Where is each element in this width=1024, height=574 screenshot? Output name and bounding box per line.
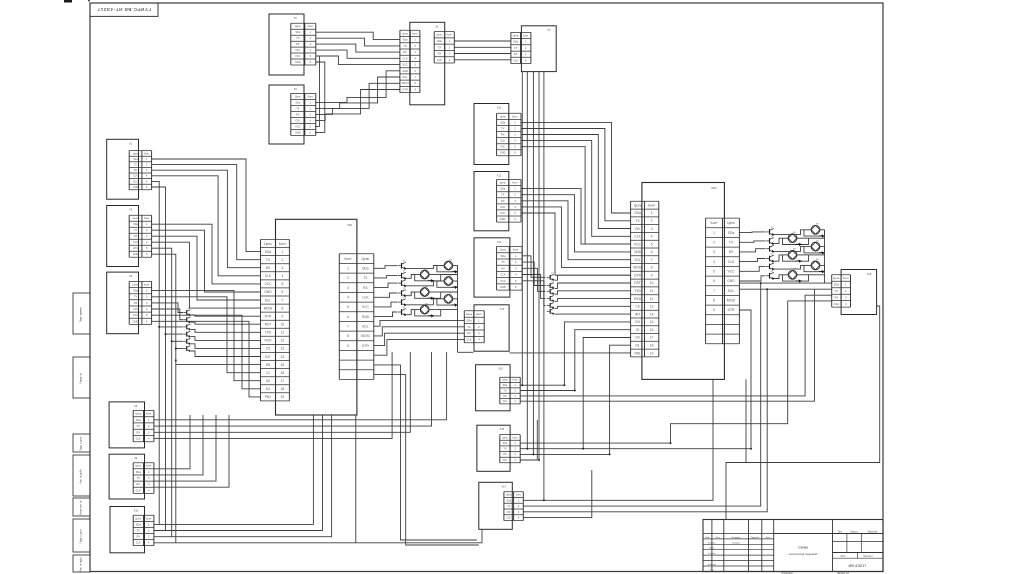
svg-text:Перв. примен.: Перв. примен.	[80, 306, 83, 322]
svg-text:IO: IO	[636, 328, 640, 332]
svg-text:SDa: SDa	[136, 470, 142, 474]
svg-text:Изм.: Изм.	[705, 537, 710, 539]
svg-text:17: 17	[650, 336, 654, 340]
svg-text:11: 11	[650, 289, 654, 293]
svg-text:Цепь: Цепь	[502, 436, 508, 439]
svg-text:Конт: Конт	[711, 221, 719, 225]
svg-text:Конт: Конт	[308, 25, 314, 28]
svg-text:Масса: Масса	[851, 531, 859, 533]
svg-text:SDa: SDa	[513, 40, 519, 44]
svg-text:RX: RX	[134, 170, 138, 172]
svg-text:3: 3	[347, 286, 349, 290]
svg-text:Подпись: Подпись	[751, 537, 759, 539]
svg-text:Т.контр.: Т.контр.	[708, 553, 716, 555]
svg-text:TX: TX	[438, 45, 442, 49]
svg-text:PB1: PB1	[265, 395, 271, 399]
svg-text:DTR: DTR	[265, 314, 272, 318]
svg-text:Цепь: Цепь	[727, 221, 735, 225]
svg-text:Цепь: Цепь	[295, 25, 302, 28]
svg-text:CLK: CLK	[500, 140, 505, 143]
svg-text:Подп. и дата: Подп. и дата	[80, 436, 83, 451]
svg-text:M1: M1	[793, 232, 796, 234]
svg-text:3: 3	[651, 227, 653, 231]
svg-text:CLK: CLK	[133, 176, 138, 178]
svg-text:ГУИРС.ВВ ИТ-4Э217: ГУИРС.ВВ ИТ-4Э217	[97, 6, 151, 12]
svg-text:12: 12	[650, 297, 654, 301]
svg-text:Конт: Конт	[447, 33, 453, 37]
svg-text:7: 7	[713, 289, 715, 293]
svg-text:EN: EN	[266, 363, 271, 367]
svg-text:4: 4	[651, 235, 653, 239]
svg-text:SDa: SDa	[295, 101, 300, 104]
svg-text:RX: RX	[134, 301, 138, 305]
svg-text:X13: X13	[497, 241, 502, 244]
svg-text:SDa: SDa	[136, 523, 142, 526]
svg-text:SDa: SDa	[133, 159, 138, 161]
svg-text:X15: X15	[498, 368, 503, 371]
svg-text:D1: D1	[266, 387, 270, 391]
svg-text:CLK: CLK	[500, 205, 505, 209]
svg-text:17: 17	[281, 379, 285, 383]
svg-text:Конт: Конт	[146, 464, 152, 468]
svg-text:GND: GND	[295, 131, 301, 134]
svg-text:X16: X16	[500, 428, 505, 431]
svg-text:Цепь: Цепь	[506, 494, 512, 497]
svg-text:CLK: CLK	[136, 488, 141, 492]
svg-text:DTR: DTR	[728, 308, 735, 312]
svg-text:SDa: SDa	[503, 385, 508, 387]
svg-text:Цепь: Цепь	[132, 282, 139, 286]
svg-text:RX: RX	[729, 250, 734, 254]
svg-text:D0: D0	[266, 379, 270, 383]
svg-text:8: 8	[651, 266, 653, 270]
svg-text:CLK: CLK	[634, 235, 641, 239]
svg-text:2: 2	[713, 241, 715, 245]
svg-text:12: 12	[281, 339, 285, 343]
svg-text:5: 5	[651, 242, 653, 246]
svg-text:Цепь: Цепь	[466, 312, 473, 316]
svg-text:Конт: Конт	[516, 494, 522, 497]
svg-text:CLK: CLK	[136, 437, 141, 441]
svg-text:X17: X17	[502, 485, 507, 488]
svg-text:GND: GND	[133, 187, 139, 189]
svg-text:SDa: SDa	[500, 254, 506, 258]
svg-text:электрическая соединений: электрическая соединений	[789, 553, 819, 556]
svg-text:Подп. и дата: Подп. и дата	[80, 529, 83, 544]
svg-text:Конт: Конт	[513, 248, 519, 252]
svg-text:RX: RX	[296, 43, 300, 46]
svg-text:RX: RX	[501, 266, 505, 270]
svg-text:TX: TX	[296, 37, 300, 40]
svg-text:RST: RST	[634, 281, 641, 285]
svg-text:RX: RX	[835, 295, 839, 299]
svg-text:VCC: VCC	[634, 242, 642, 246]
svg-text:Конт: Конт	[146, 412, 152, 416]
svg-text:Конт: Конт	[412, 31, 418, 35]
svg-text:SDa: SDa	[403, 38, 409, 42]
svg-text:18: 18	[650, 344, 654, 348]
svg-text:GND: GND	[295, 61, 301, 64]
svg-text:EN: EN	[635, 320, 640, 324]
svg-text:SDa: SDa	[500, 121, 506, 124]
svg-text:CLK: CLK	[265, 274, 272, 278]
svg-text:SDa: SDa	[437, 39, 443, 43]
svg-text:SDa: SDa	[133, 223, 138, 226]
svg-text:M1: M1	[816, 259, 819, 261]
svg-text:TX: TX	[501, 260, 505, 264]
svg-text:14: 14	[281, 355, 285, 359]
svg-text:TX: TX	[134, 165, 137, 167]
svg-text:SCL: SCL	[362, 325, 369, 329]
svg-text:CLK: CLK	[513, 58, 518, 62]
svg-text:D1: D1	[636, 344, 640, 348]
svg-text:6: 6	[281, 290, 283, 294]
svg-text:Конт: Конт	[523, 34, 529, 38]
svg-text:CLK: CLK	[295, 49, 300, 52]
svg-text:TX: TX	[835, 289, 839, 293]
svg-text:Конт: Конт	[308, 95, 314, 98]
svg-text:CLK: CLK	[503, 459, 508, 462]
svg-text:16: 16	[281, 371, 285, 375]
svg-text:SCL: SCL	[634, 258, 641, 262]
svg-text:8: 8	[713, 299, 715, 303]
svg-text:TX: TX	[503, 390, 506, 392]
svg-text:RX: RX	[467, 331, 471, 335]
svg-text:X14: X14	[500, 308, 505, 311]
svg-text:M1: M1	[816, 240, 819, 242]
svg-text:1: 1	[713, 231, 715, 235]
svg-text:SDa: SDa	[265, 250, 272, 254]
svg-text:CLK: CLK	[466, 338, 471, 342]
svg-text:RX: RX	[501, 134, 505, 137]
svg-text:7: 7	[347, 325, 349, 329]
svg-text:GND: GND	[500, 285, 506, 289]
svg-text:TX: TX	[501, 193, 505, 197]
svg-text:INT: INT	[265, 355, 270, 359]
svg-text:ИВ 4Э217: ИВ 4Э217	[849, 563, 867, 568]
svg-text:M1: M1	[449, 259, 452, 261]
svg-text:11: 11	[281, 331, 285, 335]
svg-text:SDa: SDa	[133, 289, 139, 293]
svg-text:RX: RX	[507, 511, 511, 514]
svg-text:Цепь: Цепь	[502, 380, 508, 382]
svg-text:RX: RX	[403, 50, 407, 54]
svg-text:Разраб.: Разраб.	[708, 542, 716, 544]
svg-text:7: 7	[651, 258, 653, 262]
svg-text:RX: RX	[136, 430, 140, 434]
svg-text:X12: X12	[497, 175, 502, 178]
svg-text:CLK: CLK	[503, 401, 508, 403]
svg-text:RXD: RXD	[634, 297, 642, 301]
svg-text:5: 5	[347, 305, 349, 309]
svg-text:8: 8	[281, 306, 283, 310]
svg-text:M1: M1	[793, 249, 796, 251]
svg-text:DTR: DTR	[634, 274, 641, 278]
svg-text:Схема: Схема	[798, 545, 808, 549]
svg-text:13: 13	[650, 305, 654, 309]
svg-text:CLK: CLK	[437, 58, 442, 62]
svg-text:1: 1	[347, 267, 349, 271]
svg-text:SDa: SDa	[362, 267, 369, 271]
svg-text:INT: INT	[635, 312, 640, 316]
svg-text:SDa: SDa	[834, 283, 840, 287]
svg-text:9: 9	[281, 314, 283, 318]
svg-text:Лит.: Лит.	[838, 531, 843, 533]
svg-text:DTR: DTR	[362, 344, 369, 348]
svg-text:M1: M1	[449, 275, 452, 277]
svg-text:SDa: SDa	[466, 318, 472, 322]
svg-text:2: 2	[281, 258, 283, 262]
svg-text:TX: TX	[137, 529, 141, 532]
svg-text:TXD: TXD	[265, 331, 272, 335]
svg-text:Цепь: Цепь	[513, 34, 520, 38]
svg-text:SCL: SCL	[728, 289, 735, 293]
svg-text:15: 15	[650, 320, 654, 324]
svg-text:M1: M1	[816, 224, 819, 226]
svg-text:Конт: Конт	[146, 517, 152, 520]
svg-text:18: 18	[281, 387, 285, 391]
svg-text:RX: RX	[503, 396, 507, 398]
svg-text:TX: TX	[137, 424, 141, 428]
svg-text:10: 10	[281, 323, 285, 327]
svg-text:1: 1	[281, 250, 283, 254]
svg-text:15: 15	[281, 363, 285, 367]
svg-text:X10: X10	[134, 510, 139, 513]
svg-text:Конт: Конт	[476, 312, 483, 316]
svg-text:VCC: VCC	[500, 146, 506, 149]
svg-text:GND: GND	[500, 217, 506, 221]
svg-text:DTR: DTR	[402, 88, 407, 92]
svg-text:CLK: CLK	[506, 517, 511, 520]
svg-text:SDa: SDa	[728, 231, 735, 235]
svg-text:Конт: Конт	[512, 115, 518, 118]
svg-text:MOSI: MOSI	[402, 81, 409, 85]
svg-text:RX: RX	[438, 52, 442, 56]
svg-text:TX: TX	[134, 229, 138, 232]
svg-text:9: 9	[651, 274, 653, 278]
svg-text:GND: GND	[362, 315, 370, 319]
svg-text:CLK: CLK	[500, 273, 505, 277]
svg-text:DD2: DD2	[711, 187, 717, 190]
svg-text:TX: TX	[501, 127, 505, 130]
svg-text:VCC: VCC	[728, 270, 736, 274]
svg-text:M1: M1	[449, 293, 452, 295]
svg-text:19: 19	[650, 351, 654, 355]
svg-text:9: 9	[713, 308, 715, 312]
svg-text:RST: RST	[265, 323, 272, 327]
svg-text:VCC: VCC	[500, 211, 506, 215]
svg-text:Цепь: Цепь	[133, 153, 139, 155]
svg-text:GND: GND	[727, 279, 735, 283]
svg-text:13: 13	[281, 347, 285, 351]
svg-text:VCC: VCC	[133, 313, 139, 317]
svg-text:Справ. №: Справ. №	[80, 372, 83, 383]
svg-text:Ушаков: Ушаков	[732, 542, 740, 544]
svg-text:Утв.: Утв.	[710, 569, 715, 571]
svg-text:CLK: CLK	[362, 296, 369, 300]
svg-text:CS: CS	[266, 347, 271, 351]
svg-text:RX: RX	[266, 266, 271, 270]
svg-text:MOSI: MOSI	[633, 266, 641, 270]
svg-text:Цепь: Цепь	[833, 276, 840, 280]
svg-text:Конт: Конт	[144, 217, 150, 220]
svg-text:SCL: SCL	[265, 298, 272, 302]
svg-text:Конт: Конт	[512, 181, 518, 185]
svg-text:6: 6	[713, 279, 715, 283]
svg-text:CLK: CLK	[834, 302, 839, 306]
svg-text:VCC: VCC	[295, 55, 300, 58]
svg-text:TXD: TXD	[634, 289, 641, 293]
svg-text:Инв. № подл.: Инв. № подл.	[80, 557, 83, 572]
svg-text:19: 19	[281, 395, 285, 399]
svg-text:Масштаб: Масштаб	[868, 531, 879, 533]
svg-text:5: 5	[713, 270, 715, 274]
svg-text:DD1: DD1	[347, 224, 353, 227]
svg-text:Н.контр.: Н.контр.	[708, 564, 717, 566]
svg-text:Конт: Конт	[144, 282, 150, 286]
svg-text:Цепь: Цепь	[500, 248, 507, 252]
svg-text:TX: TX	[467, 325, 471, 329]
svg-text:GND: GND	[500, 152, 506, 155]
svg-text:8: 8	[347, 334, 349, 338]
svg-text:CLK: CLK	[133, 241, 138, 244]
svg-text:VCC: VCC	[265, 282, 273, 286]
svg-text:MOSI: MOSI	[361, 334, 370, 338]
svg-text:Пров.: Пров.	[709, 548, 715, 550]
svg-text:TX: TX	[503, 448, 506, 451]
svg-text:RX: RX	[134, 235, 138, 238]
svg-text:SDa: SDa	[500, 187, 506, 191]
svg-text:Цепь: Цепь	[135, 464, 142, 468]
svg-text:RX: RX	[501, 199, 505, 203]
svg-text:Конт: Конт	[345, 257, 353, 261]
svg-text:Лист: Лист	[716, 537, 721, 539]
svg-text:CLK: CLK	[295, 119, 300, 122]
svg-text:5: 5	[281, 282, 283, 286]
svg-text:TX: TX	[137, 476, 141, 480]
svg-text:PB1: PB1	[635, 351, 641, 355]
svg-text:2: 2	[347, 276, 349, 280]
svg-text:TX: TX	[296, 107, 300, 110]
svg-text:TX: TX	[134, 295, 138, 299]
svg-text:GND: GND	[133, 253, 139, 256]
svg-text:CLK: CLK	[728, 260, 735, 264]
svg-text:RX: RX	[363, 286, 368, 290]
svg-text:Конт: Конт	[279, 242, 287, 246]
svg-text:VCC: VCC	[362, 305, 370, 309]
svg-text:Цепь: Цепь	[500, 115, 507, 118]
svg-text:6: 6	[651, 250, 653, 254]
svg-text:IO: IO	[266, 371, 270, 375]
svg-text:Цепь: Цепь	[436, 33, 443, 37]
svg-text:RX: RX	[296, 113, 300, 116]
svg-text:14: 14	[650, 312, 654, 316]
svg-text:X18: X18	[867, 273, 872, 276]
svg-text:3: 3	[281, 266, 283, 270]
svg-text:SDa: SDa	[506, 499, 511, 502]
svg-text:RXD: RXD	[265, 339, 273, 343]
svg-text:Цепь: Цепь	[135, 412, 142, 416]
svg-text:10: 10	[650, 281, 654, 285]
svg-text:7: 7	[281, 298, 283, 302]
svg-text:Инв. № дубл.: Инв. № дубл.	[80, 469, 83, 484]
svg-text:CLK: CLK	[133, 307, 138, 311]
svg-text:Конт: Конт	[648, 203, 655, 207]
svg-text:RX: RX	[503, 453, 507, 456]
svg-text:9: 9	[347, 344, 349, 348]
svg-text:TX: TX	[514, 46, 518, 50]
svg-text:D0: D0	[636, 336, 640, 340]
svg-text:Цепь: Цепь	[362, 257, 370, 261]
svg-text:Конт: Конт	[843, 276, 850, 280]
svg-text:№ докум.: № докум.	[731, 536, 741, 539]
svg-text:Цепь: Цепь	[634, 203, 642, 207]
svg-text:GND: GND	[133, 319, 139, 323]
svg-text:SDa: SDa	[503, 442, 508, 445]
svg-text:Листов 1: Листов 1	[863, 556, 873, 558]
svg-text:16: 16	[650, 328, 654, 332]
svg-text:TX: TX	[507, 505, 510, 508]
svg-text:2: 2	[651, 219, 653, 223]
svg-text:1: 1	[651, 211, 653, 215]
svg-text:VCC: VCC	[500, 279, 506, 283]
svg-text:4: 4	[713, 260, 715, 264]
svg-text:RX: RX	[514, 52, 518, 56]
svg-text:MOSI: MOSI	[264, 306, 273, 310]
svg-text:GND: GND	[402, 69, 408, 73]
svg-text:RX: RX	[137, 482, 141, 486]
svg-text:Цепь: Цепь	[295, 95, 302, 98]
svg-text:CLK: CLK	[136, 542, 141, 545]
svg-text:VCC: VCC	[133, 181, 138, 183]
svg-text:SDa: SDa	[634, 211, 641, 215]
svg-text:Цепь: Цепь	[133, 217, 140, 220]
svg-text:TX: TX	[403, 44, 407, 48]
svg-text:Цепь: Цепь	[500, 181, 507, 185]
svg-text:X11: X11	[497, 107, 502, 110]
svg-text:6: 6	[347, 315, 349, 319]
svg-text:3: 3	[713, 250, 715, 254]
svg-text:Взам. инв. №: Взам. инв. №	[80, 500, 83, 515]
svg-text:4: 4	[347, 296, 349, 300]
svg-text:VCC: VCC	[295, 125, 300, 128]
svg-text:4: 4	[281, 274, 283, 278]
svg-text:GND: GND	[264, 290, 272, 294]
svg-text:RX: RX	[137, 536, 141, 539]
svg-text:VCC: VCC	[133, 247, 138, 250]
svg-text:SDa: SDa	[136, 418, 142, 422]
svg-text:MOSI: MOSI	[727, 299, 736, 303]
svg-text:Цепь: Цепь	[264, 242, 272, 246]
svg-text:CLK: CLK	[403, 56, 408, 60]
svg-text:Цепь: Цепь	[402, 31, 409, 35]
svg-text:SCL: SCL	[403, 75, 409, 79]
svg-text:VCC: VCC	[402, 63, 408, 67]
svg-text:SDa: SDa	[295, 31, 300, 34]
svg-text:GND: GND	[634, 250, 642, 254]
svg-text:Цепь: Цепь	[135, 517, 142, 520]
